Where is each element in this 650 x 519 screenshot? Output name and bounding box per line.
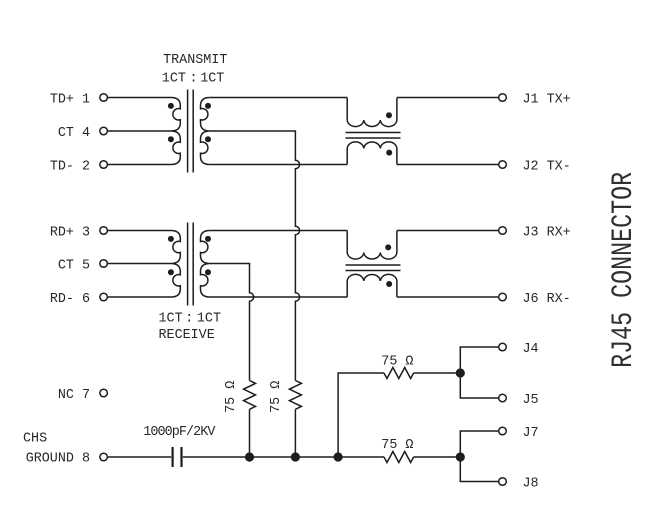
pin 2 terminal circle <box>100 161 108 169</box>
J7 terminal circle <box>499 427 507 435</box>
junction dot R4 branch ground <box>334 452 343 461</box>
svg-text:NC 7: NC 7 <box>58 388 90 403</box>
svg-text::: : <box>190 72 198 87</box>
choke L1 polarity dot top <box>386 112 392 118</box>
junction dot R1 ground <box>245 452 254 461</box>
wire T2 secondary top to choke L2 <box>210 230 347 232</box>
choke L2 polarity dot top <box>385 244 391 250</box>
J5 terminal circle <box>499 394 507 402</box>
svg-text:J4: J4 <box>523 342 539 357</box>
svg-text:CT 4: CT 4 <box>58 126 90 141</box>
wire R3 to J7 J8 node <box>414 456 461 458</box>
wire pin2 to T1 primary <box>107 164 171 166</box>
wire node to J7 <box>460 431 498 457</box>
wire T1 secondary top to choke L1 <box>210 97 347 99</box>
pin 4 terminal circle <box>100 127 108 135</box>
choke L2 core <box>346 265 401 271</box>
svg-text:RECEIVE: RECEIVE <box>159 328 215 343</box>
choke L2 top winding <box>347 231 397 260</box>
choke L1 polarity dot bottom <box>386 150 392 156</box>
label 1CT:1CT transmit ratio <box>162 72 225 87</box>
J3 terminal circle <box>499 227 507 235</box>
transformer T1 polarity dot secondary lower <box>205 136 211 142</box>
J2 terminal circle <box>499 161 507 169</box>
resistor R1 75ohm vertical <box>244 381 256 410</box>
J4 terminal circle <box>499 343 507 351</box>
choke L1 core <box>346 133 401 139</box>
svg-text:1CT: 1CT <box>162 72 186 87</box>
svg-text:TD+ 1: TD+ 1 <box>50 92 90 107</box>
svg-text:J2 TX-: J2 TX- <box>523 159 571 174</box>
pin 8 ground terminal circle <box>100 453 108 461</box>
transformer T2 polarity dot secondary lower <box>205 269 211 275</box>
wire pin6 to T2 primary <box>107 296 171 298</box>
transformer T2 polarity dot secondary upper <box>205 236 211 242</box>
wire choke L1 to J1 <box>397 97 499 99</box>
choke L1 bottom winding <box>347 142 397 165</box>
transformer T1 polarity dot primary upper <box>168 103 174 109</box>
junction dot J7 J8 node <box>456 452 465 461</box>
wire R2 to ground bus <box>294 409 296 457</box>
wire ground bus branch up to R4 <box>338 373 384 457</box>
resistor R3 75ohm horizontal on ground bus <box>384 452 414 463</box>
svg-text:GROUND 8: GROUND 8 <box>26 452 90 467</box>
svg-text:TD- 2: TD- 2 <box>50 159 90 174</box>
pin 6 terminal circle <box>100 293 108 301</box>
wire R1 to ground bus <box>249 409 251 457</box>
junction dot J4 J5 node <box>456 368 465 377</box>
svg-text:75 Ω: 75 Ω <box>269 381 284 413</box>
label 1CT:1CT receive ratio <box>159 312 222 327</box>
transformer T2 polarity dot primary upper <box>168 236 174 242</box>
capacitor C1 plates <box>173 447 182 467</box>
svg-text:J3 RX+: J3 RX+ <box>523 225 571 240</box>
wire pin1 to T1 primary <box>107 97 171 99</box>
svg-text:J8: J8 <box>523 476 539 491</box>
J6 terminal circle <box>499 293 507 301</box>
transformer T2 primary winding <box>171 231 180 298</box>
wire pin5 to T2 primary center tap <box>107 263 171 265</box>
wire node to J8 <box>460 457 498 482</box>
svg-text:J7: J7 <box>523 426 539 441</box>
J8 terminal circle <box>499 478 507 486</box>
wire pin4 to T1 primary center tap <box>107 130 171 132</box>
pin 3 terminal circle <box>100 227 108 235</box>
svg-text:1CT: 1CT <box>200 72 224 87</box>
wire choke L2 to J3 <box>397 230 499 232</box>
pin 7 NC terminal circle <box>100 389 108 397</box>
choke L2 bottom winding <box>347 274 397 297</box>
svg-text::: : <box>185 312 193 327</box>
transformer T1 core <box>188 90 194 173</box>
wire T1 secondary center tap down with hops to R2 <box>210 131 300 381</box>
svg-text:1CT: 1CT <box>159 312 183 327</box>
choke L1 top winding <box>347 98 397 127</box>
svg-text:RJ45 CONNECTOR: RJ45 CONNECTOR <box>607 172 641 368</box>
svg-text:CHS: CHS <box>23 432 47 447</box>
transformer T1 secondary winding <box>201 98 210 165</box>
wire node to J4 <box>460 347 498 373</box>
junction dot R2 ground <box>291 452 300 461</box>
wire T2 secondary center tap down with hop to R1 <box>210 264 254 381</box>
svg-text:RD+ 3: RD+ 3 <box>50 225 90 240</box>
wire node to J5 <box>460 373 498 398</box>
wire choke L2 to J6 <box>397 296 499 298</box>
svg-text:CT 5: CT 5 <box>58 258 90 273</box>
svg-text:75 Ω: 75 Ω <box>224 381 239 413</box>
wire ground bus capacitor to R3 <box>183 456 384 458</box>
pin 5 terminal circle <box>100 260 108 268</box>
transformer T2 core <box>188 223 194 306</box>
svg-text:75 Ω: 75 Ω <box>381 355 413 370</box>
J1 terminal circle <box>499 94 507 102</box>
svg-text:RD- 6: RD- 6 <box>50 292 90 307</box>
wire pin8 to capacitor C1 <box>107 456 171 458</box>
resistor R2 75ohm vertical <box>289 381 301 410</box>
wire R4 to J4 J5 node <box>414 372 461 374</box>
svg-text:1CT: 1CT <box>197 312 221 327</box>
wire choke L1 to J2 <box>397 164 499 166</box>
transformer T1 polarity dot secondary upper <box>205 103 211 109</box>
svg-text:J5: J5 <box>523 393 539 408</box>
svg-text:J1 TX+: J1 TX+ <box>523 92 571 107</box>
wire pin3 to T2 primary <box>107 230 171 232</box>
choke L2 polarity dot bottom <box>386 281 392 287</box>
svg-text:TRANSMIT: TRANSMIT <box>163 53 227 68</box>
transformer T2 secondary winding <box>201 231 210 298</box>
svg-text:1000pF/2KV: 1000pF/2KV <box>143 425 215 440</box>
transformer T2 polarity dot primary lower <box>168 269 174 275</box>
svg-text:J6 RX-: J6 RX- <box>523 292 571 307</box>
transformer T1 primary winding <box>171 98 180 165</box>
transformer T1 polarity dot primary lower <box>168 136 174 142</box>
wire T2 secondary bottom to choke L2 <box>210 296 347 298</box>
svg-text:75 Ω: 75 Ω <box>381 438 413 453</box>
resistor R4 75ohm horizontal <box>384 368 414 379</box>
pin 1 terminal circle <box>100 94 108 102</box>
wire T1 secondary bottom to choke L1 <box>210 164 347 166</box>
